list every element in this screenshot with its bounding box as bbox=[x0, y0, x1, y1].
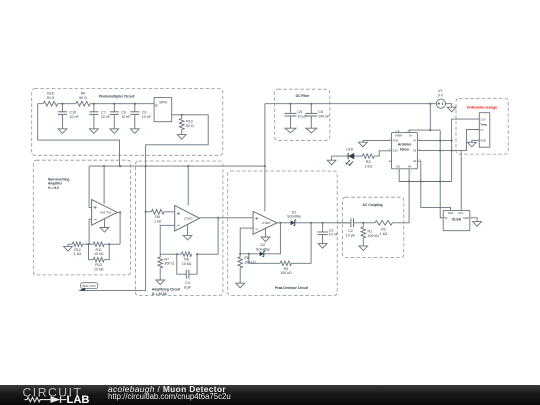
svg-text:1 kΩ: 1 kΩ bbox=[364, 164, 372, 168]
wire bus to op1 + input bbox=[89, 166, 92, 207]
node dot R10 tap bbox=[181, 114, 183, 116]
ground under C9 bbox=[130, 129, 139, 134]
svg-text:10 µF: 10 µF bbox=[298, 115, 308, 119]
svg-text:SCL: SCL bbox=[458, 211, 464, 215]
Arduino pin numbers bbox=[388, 131, 421, 174]
wire 3v3 to lower bus bbox=[399, 169, 451, 182]
wire A7 row bbox=[417, 140, 451, 142]
svg-text:LT1807: LT1807 bbox=[184, 217, 193, 221]
wire op1 output down bbox=[119, 212, 121, 244]
svg-text:10 nF: 10 nF bbox=[142, 115, 152, 119]
label Non-inverting Amplifier G = 6.0 bbox=[48, 177, 69, 190]
svg-text:100 kΩ: 100 kΩ bbox=[280, 271, 292, 275]
op-amp U1 LT1807 bbox=[175, 205, 200, 231]
svg-text:D2: D2 bbox=[260, 243, 265, 247]
svg-text:AC Coupling: AC Coupling bbox=[363, 203, 383, 207]
svg-text:3.3V: 3.3V bbox=[480, 117, 486, 121]
resistor R9 bbox=[76, 101, 90, 106]
label R11 10 k&#937; bbox=[94, 248, 104, 256]
svg-text:R8: R8 bbox=[184, 258, 189, 262]
label R6 1 k&#937; bbox=[154, 215, 162, 223]
ground left of R12 bbox=[64, 244, 73, 251]
svg-text:D1: D1 bbox=[292, 210, 297, 214]
node dot lower bus x420 bbox=[420, 180, 422, 182]
capacitor C10 bbox=[58, 104, 67, 129]
label LED bbox=[346, 148, 353, 152]
label R2 1 k&#937; bbox=[380, 228, 388, 236]
svg-text:R13: R13 bbox=[95, 263, 102, 267]
wire feedback drop bbox=[160, 218, 218, 254]
capacitor C4 bbox=[186, 270, 189, 279]
flag BNC OUT bbox=[78, 283, 98, 291]
svg-text:10 nF: 10 nF bbox=[121, 115, 131, 119]
node dot C3 top bbox=[322, 222, 324, 224]
OLED box bbox=[443, 210, 470, 230]
node dot A7-3v3 bbox=[451, 140, 453, 142]
svg-text:Photomultiplier Circuit: Photomultiplier Circuit bbox=[99, 94, 135, 98]
node dot R1 tap bbox=[362, 222, 364, 224]
svg-text:G = 6.0: G = 6.0 bbox=[48, 186, 59, 190]
svg-text:AREF: AREF bbox=[395, 133, 403, 137]
node dot bus signal bbox=[145, 165, 147, 167]
label C6 100 nF bbox=[318, 110, 330, 118]
wire photomultiplier left loop bbox=[38, 104, 120, 166]
svg-text:10 kΩ: 10 kΩ bbox=[94, 267, 104, 271]
node dot feedback left bbox=[87, 243, 89, 245]
wire op3 V- stub bbox=[265, 228, 267, 237]
wire op2 - input bbox=[160, 225, 175, 254]
resistor R8 bbox=[182, 252, 192, 257]
wire R6 row bbox=[146, 211, 175, 213]
svg-text:Temp: Temp bbox=[480, 123, 487, 127]
resistor R1 bbox=[361, 223, 366, 246]
CircuitLab logo bbox=[20, 385, 112, 405]
wire A5 row bbox=[417, 150, 466, 152]
svg-text:HA17741: HA17741 bbox=[100, 211, 112, 215]
label: Photomultiplier Circuit bbox=[99, 94, 135, 98]
dashed box: AC Coupling bbox=[343, 197, 404, 257]
svg-text:C5: C5 bbox=[298, 110, 303, 114]
label R9 50 &#937; bbox=[79, 92, 87, 100]
OLED pin labels bbox=[444, 211, 469, 220]
svg-text:GND: GND bbox=[463, 216, 469, 220]
svg-text:1 kΩ: 1 kΩ bbox=[74, 252, 82, 256]
node dot C4 left bbox=[176, 253, 178, 255]
svg-text:DC Filter: DC Filter bbox=[296, 94, 310, 98]
svg-text:R2: R2 bbox=[381, 228, 386, 232]
wire op2 V- stub bbox=[187, 225, 189, 236]
svg-text:C6: C6 bbox=[318, 110, 323, 114]
label C10 10 nF bbox=[70, 110, 80, 118]
svg-text:C3: C3 bbox=[329, 228, 334, 232]
svg-text:A0: A0 bbox=[408, 165, 412, 169]
ground under C7 bbox=[90, 129, 99, 134]
node dot D2 clamp bbox=[279, 222, 281, 224]
svg-text:C9: C9 bbox=[142, 110, 147, 114]
svg-text:100 kΩ: 100 kΩ bbox=[368, 234, 380, 238]
wire temp 3.3V drop bbox=[452, 119, 480, 181]
ground under R7 bbox=[156, 280, 165, 285]
dashed box: Amplifying Circuit bbox=[136, 161, 223, 296]
svg-text:300 Ω: 300 Ω bbox=[164, 262, 174, 266]
wire SCL drop bbox=[460, 151, 462, 211]
svg-text:Nano: Nano bbox=[400, 148, 410, 152]
node dot V1 branch bbox=[429, 103, 431, 105]
svg-text:BNC OUT: BNC OUT bbox=[82, 284, 96, 288]
node dot signal at R6 row bbox=[145, 211, 147, 213]
wire op1 output stub bbox=[117, 211, 120, 213]
node dot op1 output bbox=[119, 211, 121, 213]
svg-text:10 µF: 10 µF bbox=[346, 233, 356, 237]
svg-text:D13: D13 bbox=[393, 149, 398, 153]
svg-text:100 kΩ: 100 kΩ bbox=[244, 261, 256, 265]
node dot lower bus x440 bbox=[439, 180, 441, 182]
svg-text:R12: R12 bbox=[74, 248, 81, 252]
ground for OLED bbox=[473, 222, 482, 227]
label D2 Schottky bbox=[256, 243, 270, 251]
svg-text:Arduino: Arduino bbox=[398, 143, 413, 147]
wire op2 V+ supply bbox=[187, 166, 189, 205]
svg-text:1 kΩ: 1 kΩ bbox=[380, 232, 388, 236]
svg-text:R16: R16 bbox=[47, 92, 54, 96]
dashed box: Peak Detector Circuit bbox=[228, 171, 338, 296]
wire Arduino GND to ground bbox=[363, 141, 392, 143]
svg-text:50 Ω: 50 Ω bbox=[79, 96, 87, 100]
svg-text:VT: VT bbox=[480, 128, 484, 132]
svg-text:9 V: 9 V bbox=[438, 94, 444, 98]
label C7 10 nF bbox=[101, 110, 111, 118]
node dot A5-3v3 bbox=[451, 150, 453, 152]
wire op1 V+ supply bbox=[103, 166, 105, 204]
node dot op2 output bbox=[217, 217, 219, 219]
node dot lower bus A0 bbox=[408, 180, 410, 182]
label Amplifying Circuit G = 34.33 bbox=[152, 288, 181, 296]
node dot 5V row bbox=[429, 129, 431, 131]
wire signal drop to R6 and BNC bbox=[81, 166, 146, 290]
capacitor C5 bbox=[285, 104, 297, 129]
wire V1 to ground bbox=[446, 104, 452, 108]
resistor R16 bbox=[43, 101, 57, 106]
svg-text:OLED: OLED bbox=[452, 218, 462, 222]
svg-text:LED: LED bbox=[346, 148, 353, 152]
svg-text:50 Ω: 50 Ω bbox=[47, 96, 55, 100]
resistor R10 bbox=[179, 115, 184, 135]
ground under R10 bbox=[177, 135, 186, 140]
resistor R5 bbox=[238, 254, 243, 283]
wire V1 drop bbox=[429, 104, 431, 130]
ground under op2 bbox=[183, 235, 192, 240]
node dot a7 cross bbox=[439, 140, 441, 142]
node dot C10 tap bbox=[61, 103, 63, 105]
label R4 100 k&#937; bbox=[280, 267, 292, 275]
node dot a5 cross bbox=[439, 150, 441, 152]
node dot R4 top bbox=[310, 222, 312, 224]
wire 5V rail down to OLED bbox=[440, 130, 443, 218]
wire OLED GND to ground bbox=[470, 218, 477, 222]
svg-text:10 kΩ: 10 kΩ bbox=[94, 252, 104, 256]
dashed box: DC Filter bbox=[275, 89, 330, 140]
wire R13 branch bbox=[89, 244, 110, 260]
label C5 10 &#181;F bbox=[298, 110, 308, 118]
svg-text:R4: R4 bbox=[284, 267, 289, 271]
label R3 1 k&#937; bbox=[364, 160, 372, 168]
svg-text:100 nF: 100 nF bbox=[318, 115, 330, 119]
label V1 9 V bbox=[438, 89, 444, 97]
label R8 10 k&#937; bbox=[182, 258, 192, 266]
node dot bus op1 V+ bbox=[103, 165, 105, 167]
svg-text:R7: R7 bbox=[164, 257, 169, 261]
node dot bus op2 V+ bbox=[187, 165, 189, 167]
label R12 1 k&#937; bbox=[74, 248, 82, 256]
wire temp VT bbox=[467, 130, 480, 151]
dashed box: Unknown usage bbox=[456, 99, 508, 155]
svg-text:8 pF: 8 pF bbox=[184, 285, 192, 289]
capacitor C6 bbox=[305, 104, 317, 129]
svg-text:R6: R6 bbox=[155, 215, 160, 219]
svg-text:R5: R5 bbox=[244, 256, 249, 260]
SIPM box bbox=[154, 98, 172, 122]
wire +9V bus bbox=[89, 165, 265, 167]
svg-text:10 nF: 10 nF bbox=[101, 115, 111, 119]
label Peak Detector Circuit bbox=[275, 286, 309, 290]
resistor R11 bbox=[93, 242, 104, 247]
capacitor C2 bbox=[351, 218, 354, 227]
ground under C3 bbox=[318, 244, 327, 249]
svg-text:C8: C8 bbox=[121, 110, 126, 114]
wire op3 - input elbow bbox=[240, 228, 253, 254]
resistor R2 bbox=[375, 221, 392, 226]
wire +9V rail right bbox=[265, 103, 436, 105]
ground for Arduino GND bbox=[359, 142, 368, 147]
svg-text:R9: R9 bbox=[81, 92, 86, 96]
node dot bus rail drop bbox=[264, 165, 266, 167]
svg-text:Amplifying Circuit: Amplifying Circuit bbox=[152, 288, 181, 292]
label C9 10 nF bbox=[142, 110, 152, 118]
wire op2 output bbox=[200, 217, 254, 219]
svg-text:C7: C7 bbox=[101, 110, 106, 114]
label R5 100 k&#937; bbox=[244, 256, 256, 264]
svg-text:LAB: LAB bbox=[67, 394, 90, 405]
diode D2 Schottky bbox=[260, 251, 266, 257]
capacitor C8 bbox=[110, 104, 119, 129]
ground under op1 bbox=[100, 228, 109, 233]
wire feedback row bbox=[68, 243, 120, 245]
wire SIPM out loop bbox=[146, 115, 209, 166]
ground under C8 bbox=[110, 129, 119, 134]
svg-text:G = 34.33: G = 34.33 bbox=[152, 292, 167, 296]
Arduino Nano box bbox=[392, 133, 418, 169]
label C2 10 &#181;F bbox=[346, 229, 356, 237]
svg-text:Non-inverting: Non-inverting bbox=[48, 177, 69, 181]
wire AREF stub bbox=[398, 130, 400, 132]
ground under R5 bbox=[236, 283, 245, 288]
label DC Filter bbox=[296, 94, 310, 98]
LED D3 bbox=[345, 153, 354, 166]
wire LED row bbox=[332, 151, 392, 156]
node dot bus x120 bbox=[119, 165, 121, 167]
node dot C9 tap bbox=[134, 103, 136, 105]
ground under op3 bbox=[261, 237, 270, 242]
node dot C4 right bbox=[196, 253, 198, 255]
wire D2 row bbox=[240, 223, 280, 254]
svg-text:R1: R1 bbox=[368, 230, 373, 234]
svg-text:Peak Detector Circuit: Peak Detector Circuit bbox=[275, 286, 309, 290]
wire op3 output row bbox=[277, 222, 351, 224]
wire A0 down to AC coupling bbox=[392, 169, 409, 223]
voltage source V1 9V bbox=[436, 99, 445, 108]
label Unknown usage (red) bbox=[467, 104, 498, 109]
ground for temp sensor bbox=[467, 142, 476, 147]
label C4 8 pF bbox=[184, 281, 192, 289]
label R10 50 &#937; bbox=[186, 120, 194, 128]
svg-text:C4: C4 bbox=[185, 281, 190, 285]
svg-text:10 nF: 10 nF bbox=[70, 115, 80, 119]
node dot C8 tap bbox=[113, 103, 115, 105]
label C8 10 nF bbox=[121, 110, 131, 118]
wire A4 to OLED SDA bbox=[417, 161, 450, 210]
wire D12 stub bbox=[389, 160, 392, 162]
svg-text:C10: C10 bbox=[70, 110, 77, 114]
svg-text:Unknown usage: Unknown usage bbox=[467, 104, 498, 109]
resistor R12 bbox=[73, 242, 83, 247]
capacitor C9 bbox=[130, 104, 139, 129]
wire AC row bbox=[337, 222, 375, 224]
svg-text:A5: A5 bbox=[413, 149, 417, 153]
svg-text:A7: A7 bbox=[413, 139, 417, 143]
dashed box: Non-inverting Amplifier bbox=[33, 160, 130, 275]
label R1 100 k&#937; bbox=[368, 230, 380, 238]
svg-text:R3: R3 bbox=[366, 160, 371, 164]
label AC Coupling bbox=[363, 203, 383, 207]
resistor R6 bbox=[151, 209, 164, 214]
svg-text:A4: A4 bbox=[413, 159, 417, 163]
capacitor C3 bbox=[317, 223, 328, 244]
resistor R7 bbox=[158, 254, 163, 280]
Temp sensor box bbox=[479, 113, 490, 148]
svg-text:10 nF: 10 nF bbox=[329, 233, 339, 237]
node dot D2 row left bbox=[239, 253, 241, 255]
label R16 50 &#937; bbox=[47, 92, 55, 100]
svg-text:10 kΩ: 10 kΩ bbox=[182, 262, 192, 266]
svg-text:Schottky: Schottky bbox=[256, 248, 270, 252]
node dot C7 tap bbox=[93, 103, 95, 105]
node dot R4 branch bbox=[248, 253, 250, 255]
label R7 300 &#937; bbox=[164, 257, 174, 265]
dashed box: Photomultiplier Circuit bbox=[32, 89, 223, 156]
ground under C6 bbox=[306, 128, 317, 133]
label R13 10 k&#937; bbox=[94, 263, 104, 271]
svg-text:5V: 5V bbox=[444, 216, 447, 220]
svg-text:3v3: 3v3 bbox=[396, 165, 401, 169]
wire 5V to V1 row bbox=[409, 130, 440, 133]
wire op1 - input to feedback bbox=[89, 219, 92, 244]
svg-text:R11: R11 bbox=[96, 248, 102, 252]
resistor R13 bbox=[93, 257, 104, 262]
svg-text:SIPM: SIPM bbox=[159, 100, 167, 104]
node dot C6 tap bbox=[310, 103, 312, 105]
resistor R3 bbox=[362, 154, 374, 159]
svg-text:Schottky: Schottky bbox=[287, 215, 301, 219]
wire rail drop to peak-detector V+ bbox=[264, 104, 266, 212]
svg-text:C2: C2 bbox=[348, 229, 353, 233]
label D1 Schottky bbox=[287, 210, 301, 218]
ground right of V1 bbox=[447, 107, 456, 112]
label C3 10 nF bbox=[329, 228, 339, 236]
Arduino pin labels bbox=[393, 133, 417, 168]
svg-text:GND: GND bbox=[480, 138, 486, 142]
wire C4 loop bbox=[177, 254, 197, 274]
op-amp U3 LT1807 bbox=[253, 211, 277, 234]
svg-text:Amplifier: Amplifier bbox=[48, 182, 63, 186]
wire R4 branch bbox=[249, 223, 311, 263]
ground left of LED bbox=[327, 156, 336, 165]
ground under C5 bbox=[285, 128, 296, 133]
svg-text:GND: GND bbox=[393, 139, 399, 143]
diode D1 Schottky bbox=[291, 220, 297, 226]
svg-text:SDA: SDA bbox=[448, 211, 454, 215]
resistor R4 bbox=[280, 261, 291, 266]
wire op1 V- stub bbox=[104, 219, 106, 228]
svg-text:R10: R10 bbox=[186, 120, 193, 124]
svg-text:LT1807: LT1807 bbox=[262, 221, 271, 225]
svg-text:V1: V1 bbox=[438, 89, 442, 93]
ground under R1 bbox=[359, 246, 368, 251]
ground under C10 bbox=[58, 129, 67, 134]
svg-text:50 Ω: 50 Ω bbox=[186, 124, 194, 128]
capacitor C7 bbox=[89, 104, 98, 129]
node dot feedback right bbox=[108, 243, 110, 245]
svg-text:1 kΩ: 1 kΩ bbox=[154, 220, 162, 224]
wire +9V rail left segment bbox=[38, 103, 154, 105]
op-amp U2 HA17741 bbox=[92, 200, 118, 226]
node dot C5 tap bbox=[289, 103, 291, 105]
wire temp GND to ground bbox=[472, 140, 480, 142]
